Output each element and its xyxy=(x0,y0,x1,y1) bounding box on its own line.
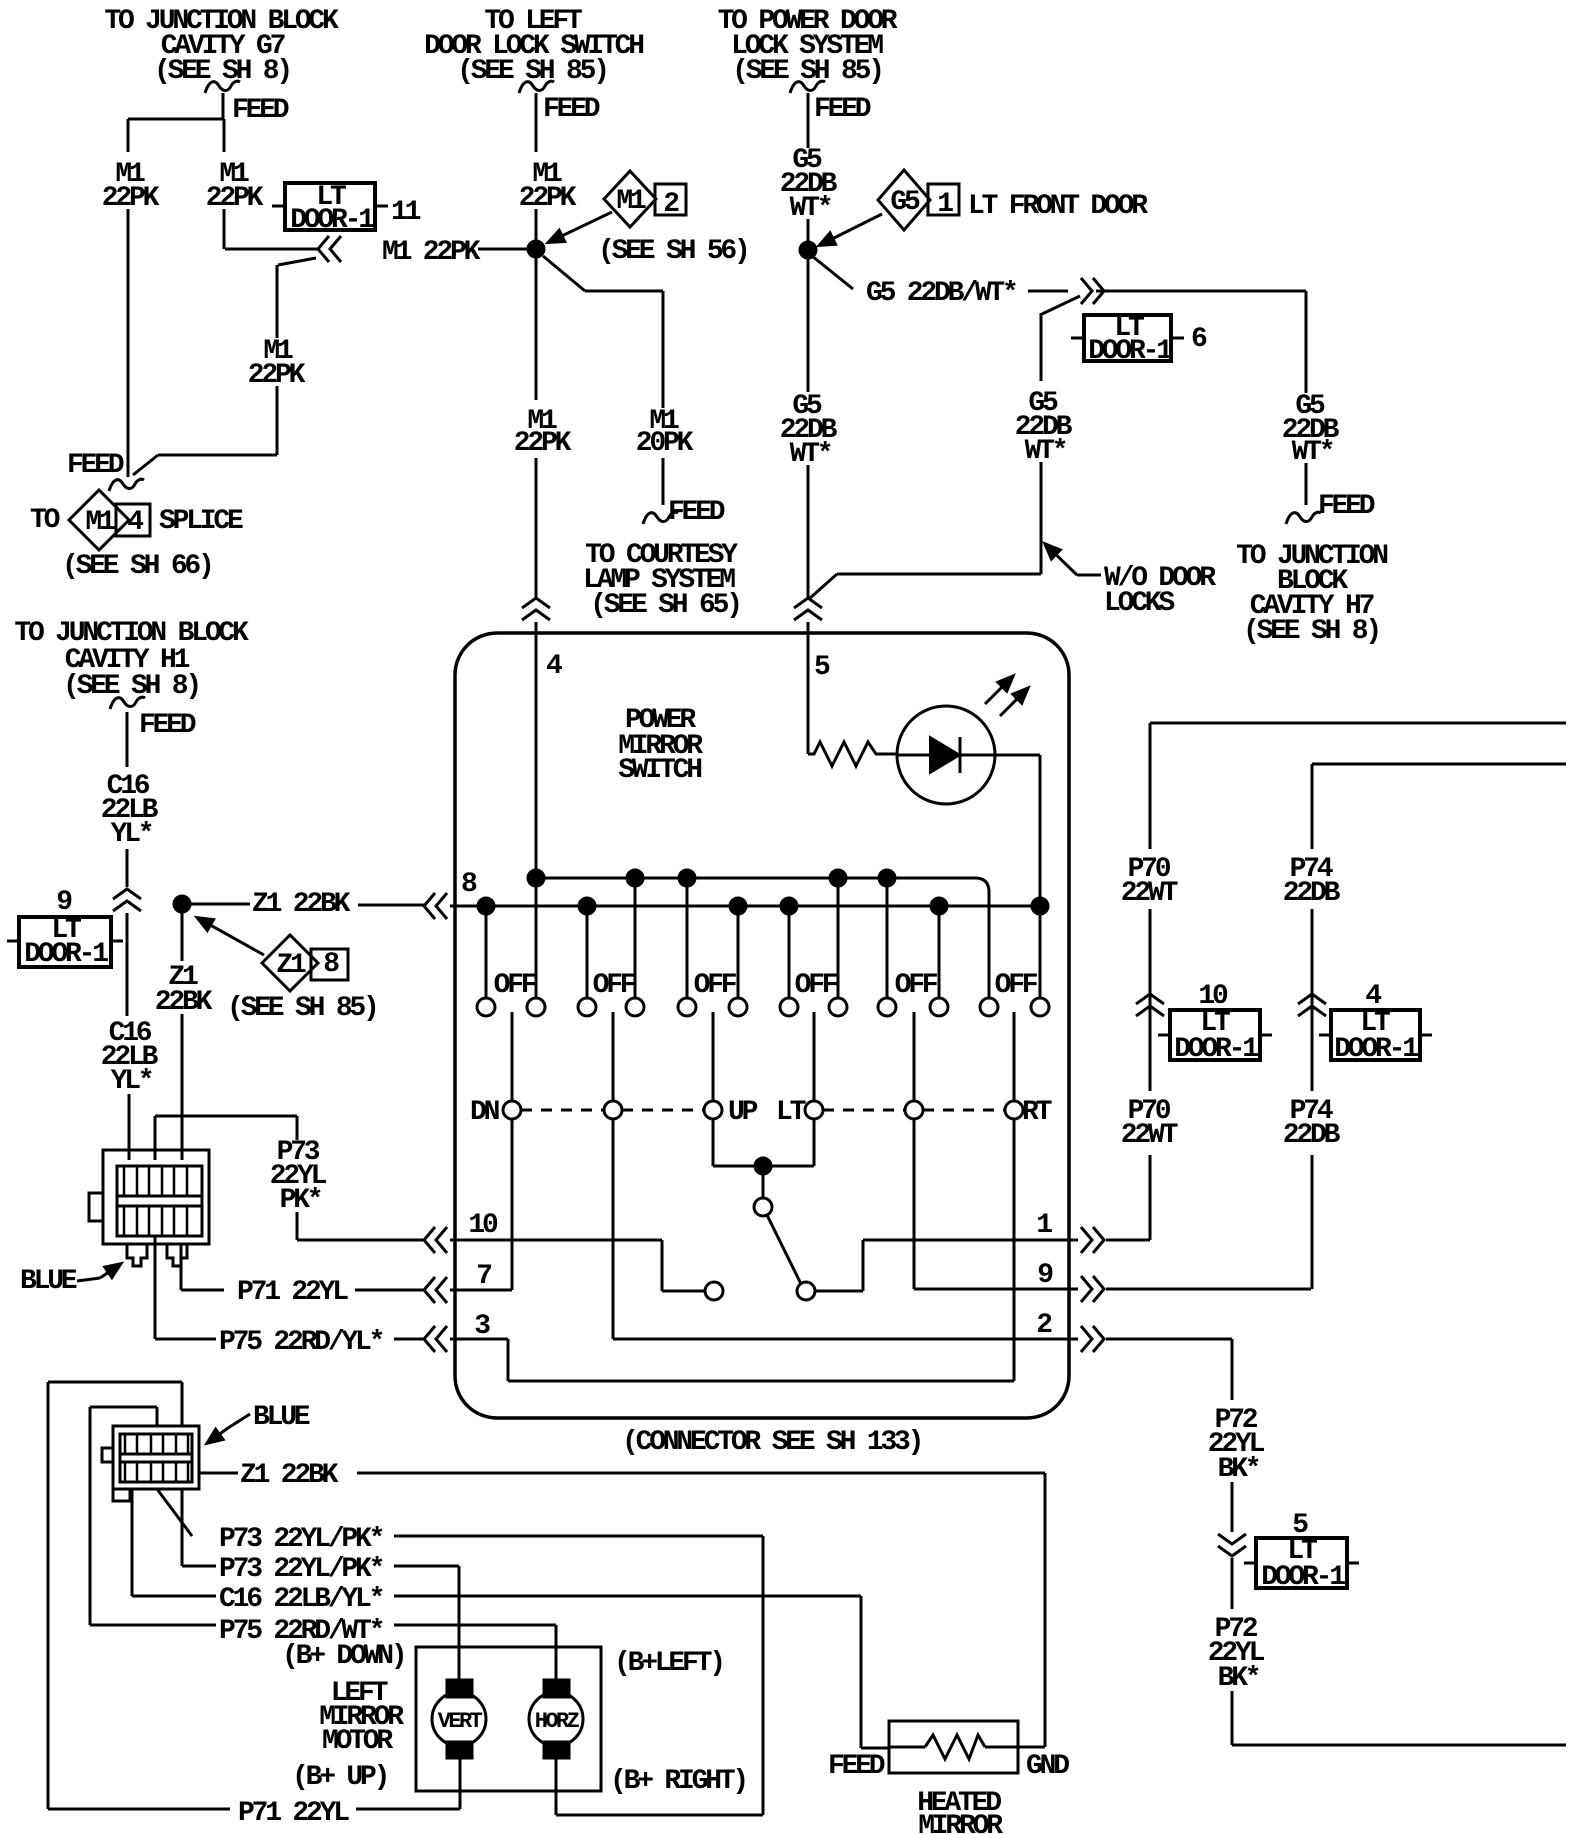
svg-text:(SEE SH 85): (SEE SH 85) xyxy=(732,56,882,87)
svg-text:(SEE SH 66): (SEE SH 66) xyxy=(62,551,212,582)
svg-text:DOOR-1: DOOR-1 xyxy=(1088,336,1172,367)
svg-text:OFF: OFF xyxy=(795,970,838,1001)
svg-text:SWITCH: SWITCH xyxy=(618,755,701,786)
svg-text:SPLICE: SPLICE xyxy=(159,506,243,537)
svg-text:HORZ: HORZ xyxy=(535,1709,580,1734)
svg-text:P71 22YL: P71 22YL xyxy=(237,1277,348,1308)
svg-text:1: 1 xyxy=(937,189,953,220)
svg-text:2: 2 xyxy=(1036,1310,1052,1341)
svg-text:10: 10 xyxy=(468,1210,498,1241)
svg-text:GND: GND xyxy=(1026,1751,1069,1782)
svg-text:G5: G5 xyxy=(890,187,920,218)
svg-text:WT*: WT* xyxy=(790,439,831,470)
svg-text:6: 6 xyxy=(1191,324,1207,355)
svg-text:3: 3 xyxy=(474,1311,490,1342)
svg-text:22PK: 22PK xyxy=(514,428,572,459)
svg-text:22PK: 22PK xyxy=(519,183,577,214)
svg-text:(SEE SH 8): (SEE SH 8) xyxy=(154,56,290,87)
svg-text:(SEE SH 85): (SEE SH 85) xyxy=(227,993,377,1024)
svg-text:(SEE SH 65): (SEE SH 65) xyxy=(590,590,740,621)
svg-text:DOOR-1: DOOR-1 xyxy=(1261,1562,1345,1593)
svg-text:YL*: YL* xyxy=(111,1066,152,1097)
svg-text:FEED: FEED xyxy=(828,1751,885,1782)
svg-text:FEED: FEED xyxy=(543,94,600,125)
svg-text:(B+ UP): (B+ UP) xyxy=(292,1762,387,1793)
svg-text:9: 9 xyxy=(1037,1260,1053,1291)
svg-text:22PK: 22PK xyxy=(102,183,160,214)
svg-text:M1 22PK: M1 22PK xyxy=(382,237,481,268)
svg-text:OFF: OFF xyxy=(593,970,636,1001)
svg-text:7: 7 xyxy=(476,1261,491,1292)
svg-text:(SEE SH 8): (SEE SH 8) xyxy=(1243,616,1379,647)
svg-text:LT FRONT DOOR: LT FRONT DOOR xyxy=(968,191,1148,222)
svg-text:(SEE SH 56): (SEE SH 56) xyxy=(598,236,748,267)
svg-text:WT*: WT* xyxy=(1292,437,1333,468)
svg-text:(B+ DOWN): (B+ DOWN) xyxy=(282,1641,404,1672)
svg-text:TO: TO xyxy=(30,505,60,536)
svg-text:LT: LT xyxy=(776,1097,806,1128)
svg-text:20PK: 20PK xyxy=(636,428,694,459)
svg-text:YL*: YL* xyxy=(111,819,152,850)
svg-text:2: 2 xyxy=(663,189,679,220)
svg-text:Z1 22BK: Z1 22BK xyxy=(252,889,351,920)
svg-text:VERT: VERT xyxy=(438,1709,483,1734)
svg-text:M1: M1 xyxy=(616,186,646,217)
svg-text:C16 22LB/YL*: C16 22LB/YL* xyxy=(219,1584,383,1615)
svg-text:OFF: OFF xyxy=(995,970,1038,1001)
svg-text:DOOR-1: DOOR-1 xyxy=(290,205,374,236)
svg-text:1: 1 xyxy=(1036,1210,1052,1241)
svg-text:22WT: 22WT xyxy=(1121,878,1178,909)
svg-text:Z1 22BK: Z1 22BK xyxy=(240,1460,339,1491)
svg-text:BLUE: BLUE xyxy=(253,1402,310,1433)
svg-text:LOCKS: LOCKS xyxy=(1104,588,1174,619)
svg-text:(CONNECTOR SEE SH 133): (CONNECTOR SEE SH 133) xyxy=(622,1427,921,1458)
svg-text:BK*: BK* xyxy=(1218,1454,1259,1485)
svg-text:FEED: FEED xyxy=(1318,491,1375,522)
svg-text:P73 22YL/PK*: P73 22YL/PK* xyxy=(219,1524,383,1555)
svg-text:Z1: Z1 xyxy=(276,950,306,981)
svg-text:11: 11 xyxy=(391,197,421,228)
svg-text:DOOR-1: DOOR-1 xyxy=(24,939,108,970)
svg-text:BK*: BK* xyxy=(1218,1663,1259,1694)
svg-text:RT: RT xyxy=(1022,1097,1052,1128)
svg-text:MIRROR: MIRROR xyxy=(918,1811,1003,1834)
svg-text:BLUE: BLUE xyxy=(20,1266,77,1297)
svg-text:22WT: 22WT xyxy=(1121,1120,1178,1151)
svg-text:8: 8 xyxy=(461,869,477,900)
svg-text:M1: M1 xyxy=(85,507,115,538)
svg-text:DOOR-1: DOOR-1 xyxy=(1174,1034,1258,1065)
svg-text:FEED: FEED xyxy=(814,94,871,125)
svg-text:MOTOR: MOTOR xyxy=(322,1726,393,1757)
svg-text:WT*: WT* xyxy=(1025,436,1066,467)
svg-text:OFF: OFF xyxy=(895,970,938,1001)
svg-text:22DB: 22DB xyxy=(1283,878,1341,909)
svg-text:DOOR-1: DOOR-1 xyxy=(1334,1034,1418,1065)
svg-text:4: 4 xyxy=(127,507,143,538)
svg-text:5: 5 xyxy=(814,652,830,683)
svg-text:DN: DN xyxy=(470,1097,499,1128)
svg-text:P75 22RD/YL*: P75 22RD/YL* xyxy=(219,1327,383,1358)
svg-text:WT*: WT* xyxy=(790,193,831,224)
svg-text:OFF: OFF xyxy=(694,970,737,1001)
svg-text:(B+LEFT): (B+LEFT) xyxy=(614,1648,723,1679)
svg-text:P71 22YL: P71 22YL xyxy=(238,1798,349,1829)
svg-text:FEED: FEED xyxy=(232,95,289,126)
svg-text:22DB: 22DB xyxy=(1283,1120,1341,1151)
svg-text:(B+ RIGHT): (B+ RIGHT) xyxy=(610,1766,746,1797)
svg-text:FEED: FEED xyxy=(67,450,124,481)
svg-text:22PK: 22PK xyxy=(206,183,264,214)
svg-text:FEED: FEED xyxy=(139,710,196,741)
svg-text:9: 9 xyxy=(56,887,72,918)
svg-text:8: 8 xyxy=(323,949,339,980)
svg-text:FEED: FEED xyxy=(668,497,725,528)
svg-text:OFF: OFF xyxy=(494,970,537,1001)
svg-text:22BK: 22BK xyxy=(155,987,213,1018)
svg-text:UP: UP xyxy=(728,1097,758,1128)
svg-text:P73 22YL/PK*: P73 22YL/PK* xyxy=(219,1554,383,1585)
svg-text:G5 22DB/WT*: G5 22DB/WT* xyxy=(866,278,1016,309)
svg-text:4: 4 xyxy=(546,651,562,682)
svg-text:(SEE SH 8): (SEE SH 8) xyxy=(63,671,199,702)
svg-text:PK*: PK* xyxy=(280,1185,321,1216)
